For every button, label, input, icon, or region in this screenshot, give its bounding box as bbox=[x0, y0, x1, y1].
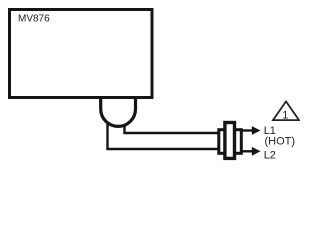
box MV876 bbox=[10, 10, 153, 98]
svg-text:MV876: MV876 bbox=[18, 14, 50, 25]
connector front body bbox=[225, 123, 235, 159]
arrowhead L2 bbox=[252, 147, 261, 156]
wire L1 (upper wire from dome to connector) bbox=[125, 112, 229, 133]
connector back body bbox=[219, 130, 242, 154]
cable strain-relief dome bbox=[101, 97, 136, 127]
svg-text:1: 1 bbox=[282, 110, 288, 122]
arrowhead L1 bbox=[252, 126, 261, 135]
arrow shaft L1 bbox=[242, 129, 253, 131]
note triangle 1 bbox=[273, 101, 299, 120]
wire L2 (lower wire from dome to connector) bbox=[108, 112, 229, 149]
svg-text:(HOT): (HOT) bbox=[265, 135, 296, 147]
arrow shaft L2 bbox=[242, 150, 253, 152]
svg-text:L2: L2 bbox=[264, 150, 276, 162]
